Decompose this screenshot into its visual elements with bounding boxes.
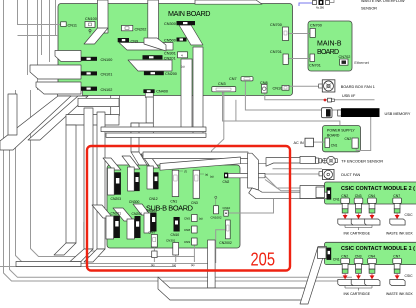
- connector CN400 main: [143, 89, 168, 93]
- svg-text:CN3: CN3: [355, 254, 362, 258]
- connector CN7 main: [229, 77, 253, 82]
- duct top vertical 1 elbow: [84, 28, 108, 44]
- svg-text:MAIN-B: MAIN-B: [317, 41, 342, 48]
- svg-text:BOARD BOX FAN 1: BOARD BOX FAN 1: [341, 85, 375, 89]
- duct elbow J2b: [84, 249, 105, 262]
- svg-text:CN3: CN3: [218, 82, 226, 86]
- duct chamfer I2: [54, 243, 76, 255]
- duct horizontal under CN202: [119, 43, 173, 51]
- svg-text:CN300: CN300: [164, 22, 176, 26]
- duct diagonal from CN300: [179, 25, 203, 45]
- connector CN300: [164, 21, 195, 26]
- svg-text:SENSOR: SENSOR: [361, 7, 377, 11]
- duct feed CN201 strip: [106, 216, 114, 239]
- wire CN701 link: [288, 58, 310, 60]
- duct top vertical 2: [148, 0, 159, 40]
- duct CN400 vertical: [146, 97, 153, 123]
- connector CN3 main: [212, 82, 236, 92]
- duct slab between CN201 and CN200: [128, 60, 172, 71]
- svg-text:(a): (a): [205, 173, 208, 177]
- sub-board connector CN5: [184, 215, 203, 222]
- svg-text:TF ENCODER SENSOR: TF ENCODER SENSOR: [341, 159, 383, 163]
- svg-text:CN2: CN2: [341, 254, 348, 258]
- duct under-board vertical left: [111, 96, 120, 116]
- duct diagonal to lower left B: [28, 96, 88, 140]
- svg-text:CN201: CN201: [111, 212, 122, 216]
- duct riser to csic module 1: [300, 247, 327, 305]
- duct CN400 lower vertical: [131, 123, 139, 152]
- svg-text:CN2002: CN2002: [219, 241, 232, 245]
- svg-text:USB MEMORY: USB MEMORY: [385, 112, 411, 116]
- connector CN700 main: [270, 23, 289, 41]
- connector CN101: [81, 71, 112, 76]
- duct feed CN300 strip: [128, 167, 135, 191]
- svg-text:CN100: CN100: [85, 17, 97, 21]
- svg-text:CN7: CN7: [393, 194, 400, 198]
- duct horizontal U over sub-board edge: [160, 157, 241, 170]
- svg-text:CSIC: CSIC: [405, 213, 414, 217]
- csic module 2 red arrows: [343, 214, 399, 219]
- duct top vertical 1: [98, 0, 109, 33]
- connector CN8 main: [260, 81, 268, 93]
- svg-text:205: 205: [251, 250, 276, 270]
- duct feed CN12 strip: [147, 166, 153, 189]
- duct sub-board right drop: [208, 240, 216, 288]
- connector CN200 main: [144, 71, 177, 76]
- duct slab left of CN100: [55, 51, 81, 62]
- duct feed CN201 diagonal: [92, 205, 113, 218]
- wire TF sensor lead: [240, 163, 266, 165]
- svg-text:CN8: CN8: [184, 228, 190, 232]
- svg-text:CN201: CN201: [164, 57, 176, 61]
- svg-text:CN101: CN101: [101, 72, 113, 76]
- svg-text:CN701: CN701: [270, 50, 282, 54]
- sensor harness top right: [299, 0, 405, 11]
- sub-board connector CN10: [171, 217, 180, 237]
- csic module 1 bracket and labels: [345, 286, 372, 291]
- sub-board connector CN12: [149, 172, 159, 201]
- connector CN701 main-b: [309, 54, 321, 68]
- svg-text:CN1002: CN1002: [211, 216, 222, 220]
- connector CN10 main: [273, 85, 290, 90]
- duct elbow J1b: [70, 249, 93, 262]
- wire CN700 link: [289, 33, 311, 35]
- svg-text:CN5: CN5: [184, 217, 190, 221]
- svg-text:CN10: CN10: [171, 233, 180, 237]
- sub-board connector CN8: [184, 226, 197, 233]
- svg-text:DUCT FAN: DUCT FAN: [341, 173, 360, 177]
- duct CN400 drop box: [145, 92, 153, 97]
- svg-text:(a): (a): [210, 175, 214, 179]
- duct mid horizontal K1: [101, 127, 206, 132]
- svg-text:CN1: CN1: [333, 197, 340, 201]
- svg-text:CN1: CN1: [333, 258, 340, 262]
- svg-text:CN12: CN12: [149, 197, 158, 201]
- svg-text:No.2B6: No.2B6: [316, 7, 325, 10]
- duct feed CN400 strip: [144, 213, 150, 233]
- duct feed CN400 diagonal: [133, 204, 150, 215]
- duct vertical channel N: [248, 153, 259, 190]
- svg-text:CN202: CN202: [135, 28, 147, 32]
- wire left harness verticals: [18, 0, 61, 90]
- sub-board connector CN301: [166, 239, 179, 267]
- csic module 2 plugs: [341, 194, 400, 198]
- wire main CN8 to USB: [265, 94, 375, 100]
- connector CN701 main: [270, 50, 288, 64]
- csic module 2 ink cartridges: [338, 219, 405, 225]
- wire left outer loops: [0, 0, 352, 281]
- svg-text:CN700: CN700: [270, 23, 282, 27]
- svg-text:CN3: CN3: [355, 194, 362, 198]
- csic module 1 ink cartridges: [338, 280, 405, 286]
- svg-text:CN3: CN3: [191, 201, 198, 205]
- duct CN400 elbow: [131, 123, 153, 135]
- board box fan 1: [319, 80, 375, 92]
- wire pair to csic module 2: [265, 176, 324, 188]
- svg-text:(a): (a): [199, 217, 203, 221]
- wire main CN10 to board box fan: [289, 85, 319, 87]
- svg-text:CN301: CN301: [164, 52, 176, 56]
- duct horizontal T above sub-board: [143, 152, 248, 159]
- connector CN100 top: [85, 17, 97, 34]
- sub-board connector CN200: [132, 212, 143, 238]
- duct sub CN2 horizontal: [228, 173, 265, 177]
- duct feed CN12 diagonal: [141, 154, 159, 168]
- svg-text:CN1: CN1: [170, 200, 177, 204]
- wire duct fan upper: [273, 168, 323, 170]
- duct bottom long horizontal: [158, 277, 308, 300]
- TF encoder sensor: [316, 156, 384, 165]
- power supply CN2: [345, 137, 359, 148]
- duct feed CN203 diagonal: [103, 158, 121, 170]
- wire main CN3 left lead down and right: [223, 92, 340, 126]
- connector CN11: [61, 22, 77, 28]
- sub-board connector CN2: [223, 173, 230, 184]
- duct elbow left: [66, 115, 119, 125]
- svg-text:CN10: CN10: [223, 206, 231, 210]
- sub-board connector CN2002: [219, 220, 232, 245]
- svg-text:(a): (a): [151, 263, 155, 267]
- svg-text:CN4: CN4: [368, 254, 375, 258]
- csic module 2 bracket and labels: [345, 226, 372, 231]
- connector CN102: [81, 87, 112, 92]
- duct slab right-down: [78, 98, 119, 106]
- svg-text:CN7: CN7: [149, 231, 156, 235]
- duct feed CN200 strip: [127, 219, 134, 239]
- connector CN202: [122, 25, 147, 31]
- svg-text:CN400: CN400: [147, 209, 158, 213]
- sub-board connector CN203: [111, 172, 122, 201]
- svg-text:CN1: CN1: [331, 144, 338, 148]
- duct left vertical channel J1: [84, 108, 93, 249]
- connector CN201 main: [143, 55, 176, 60]
- duct feed CN200 diagonal: [113, 208, 134, 221]
- svg-text:CN100: CN100: [101, 58, 113, 62]
- svg-text:CN2: CN2: [341, 194, 348, 198]
- connector CN700 main-b: [310, 24, 322, 38]
- usb interface: [324, 94, 356, 102]
- svg-text:CN11: CN11: [68, 23, 77, 27]
- duct feed CN203 strip: [108, 168, 115, 195]
- svg-text:CN10: CN10: [273, 87, 283, 91]
- svg-text:(a): (a): [172, 263, 176, 267]
- connector CN9: [118, 38, 138, 43]
- duct slab over board bottom left: [58, 87, 83, 96]
- duct left tall box: [8, 94, 17, 135]
- MAIN-B BOARD: [308, 21, 352, 71]
- connector CN1 module 2: [316, 187, 325, 198]
- svg-text:(u): (u): [181, 64, 185, 68]
- sub-board connector CN300: [129, 172, 140, 204]
- svg-text:CN702: CN702: [339, 55, 351, 59]
- svg-text:WASTE INK BOX: WASTE INK BOX: [386, 292, 413, 296]
- power supply CN1: [325, 138, 337, 148]
- wire main CN7 to power supply CN2: [245, 82, 370, 151]
- duct CN400 to sub-board: [131, 152, 147, 165]
- svg-text:CSIC: CSIC: [405, 274, 414, 278]
- svg-text:CN2: CN2: [223, 180, 230, 184]
- svg-text:WASTE INK BOX: WASTE INK BOX: [386, 231, 413, 235]
- csic module 2 details: [316, 187, 340, 201]
- duct flare from vertical 2: [144, 38, 166, 51]
- sub-board connector CN9: [184, 238, 197, 267]
- wire branch from USB line down: [235, 100, 237, 121]
- svg-text:BOARD: BOARD: [317, 49, 339, 56]
- svg-text:CN2: CN2: [345, 137, 352, 141]
- connector CN301: [164, 52, 188, 69]
- svg-text:INK CARTRIDGE: INK CARTRIDGE: [344, 292, 371, 296]
- svg-text:BOARD: BOARD: [327, 134, 340, 138]
- sub-board connector CN7: [149, 231, 158, 267]
- wire sub CN13 to module 1: [228, 193, 273, 214]
- svg-text:CN9: CN9: [131, 39, 139, 43]
- wire AC inlet: [311, 141, 326, 143]
- duct to TF encoder sensor: [266, 158, 316, 167]
- svg-text:CSIC CONTACT MODULE 1 (: CSIC CONTACT MODULE 1 (: [341, 246, 415, 252]
- duct left vertical channel I: [66, 125, 76, 243]
- svg-text:CN203: CN203: [111, 197, 122, 201]
- sub-board connector CN400: [147, 209, 158, 232]
- connector CN500: [164, 38, 187, 43]
- wire sub-board hanging leads: [154, 230, 225, 263]
- svg-text:CN200: CN200: [165, 72, 177, 76]
- svg-text:USB I/F: USB I/F: [342, 94, 356, 98]
- SUB-B BOARD: [107, 165, 240, 248]
- svg-text:(7): (7): [184, 170, 187, 174]
- svg-text:CN4: CN4: [368, 194, 375, 198]
- duct slab at csic module 2 entry: [300, 186, 324, 199]
- AC inlet: [294, 138, 314, 147]
- duct top thin above main board: [195, 0, 262, 4]
- wire main CN3 diagonal to sub-board: [212, 92, 224, 164]
- svg-text:INK CARTRIDGE: INK CARTRIDGE: [344, 231, 371, 235]
- sub-board connector CN1002: [211, 196, 222, 220]
- duct feed CN300 diagonal: [122, 156, 140, 169]
- duct long vertical E: [181, 59, 192, 131]
- duct slab left of CN102: [36, 82, 81, 94]
- svg-text:CN102: CN102: [101, 88, 113, 92]
- wire duct fan: [240, 173, 322, 175]
- svg-text:CSIC CONTACT MODULE 2 (: CSIC CONTACT MODULE 2 (: [341, 186, 415, 192]
- svg-text:CN400: CN400: [156, 90, 168, 94]
- svg-text:WASTE INK OVERFLOW: WASTE INK OVERFLOW: [361, 0, 405, 3]
- duct group: all cable channels: [0, 0, 330, 304]
- svg-text:CN700: CN700: [310, 24, 322, 28]
- sub-board connector CN1: [170, 170, 208, 204]
- POWER SUPPLY BOARD: [323, 126, 361, 152]
- duct bottom-left horizontal: [16, 262, 81, 267]
- svg-text:Ethernet: Ethernet: [354, 61, 369, 65]
- svg-text:CN701: CN701: [309, 64, 321, 68]
- csic module 1 red arrows: [343, 274, 399, 279]
- duct fan: [319, 170, 360, 180]
- csic module 1 details: [318, 248, 340, 262]
- usb memory: [322, 108, 411, 118]
- svg-text:AC IN: AC IN: [294, 141, 304, 145]
- svg-text:CN200: CN200: [132, 212, 143, 216]
- svg-text:(a): (a): [191, 263, 195, 267]
- svg-text:CN7: CN7: [393, 254, 400, 258]
- red zone rectangle: [87, 146, 290, 271]
- duct to TF sensor left slab: [300, 156, 315, 163]
- svg-text:POWER SUPPLY: POWER SUPPLY: [327, 129, 355, 133]
- svg-text:CN301: CN301: [166, 239, 176, 243]
- duct slab left of CN101: [30, 65, 81, 79]
- duct mid horizontal K2: [106, 133, 206, 137]
- svg-text:CN7: CN7: [229, 77, 237, 81]
- sub-board connector CN3: [191, 170, 214, 205]
- duct diagonal to lower left A: [0, 96, 71, 150]
- svg-text:MAIN BOARD: MAIN BOARD: [168, 9, 211, 18]
- sub-board connector CN201: [111, 212, 122, 239]
- connector CN1 module 1: [318, 248, 327, 259]
- duct left vertical channel J2: [97, 112, 105, 249]
- duct long vertical F: [193, 47, 203, 134]
- MAIN BOARD: [58, 4, 293, 96]
- svg-text:CN300: CN300: [129, 200, 140, 204]
- CSIC CONTACT MODULE 1 board: [325, 242, 416, 264]
- duct elbow and slab to csic module 2: [249, 188, 330, 199]
- svg-text:CN9: CN9: [184, 240, 190, 244]
- csic module 1 plugs: [341, 254, 400, 258]
- sub-board connector CN10b: [223, 206, 231, 216]
- wire sub-board loop: [84, 222, 101, 251]
- connector CN100 left: [81, 57, 112, 62]
- svg-text:CN500: CN500: [164, 39, 176, 43]
- CSIC CONTACT MODULE 2 board: [325, 182, 416, 204]
- connector CN702 ethernet: [339, 55, 370, 65]
